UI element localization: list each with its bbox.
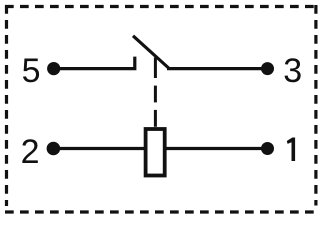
terminal dot pin 1 [261,142,274,155]
wire pivot to pin 3 [167,67,268,70]
pin label 1 [287,138,295,162]
wire pin2 to coil [53,147,145,150]
switch armature blade (NO contact) [133,36,169,68]
svg-text:2: 2 [21,133,40,171]
terminal dot pin 5 [47,62,60,75]
wire coil to pin 1 [165,147,268,150]
mechanical link (dashed) blade to coil [154,58,157,127]
wire pin5 to fixed contact [54,57,135,69]
svg-text:3: 3 [283,52,302,90]
terminal dot pin 3 [261,62,274,75]
terminal dot pin 2 [47,142,61,156]
svg-text:5: 5 [22,52,41,90]
relay coil (rectangle) [146,129,165,176]
